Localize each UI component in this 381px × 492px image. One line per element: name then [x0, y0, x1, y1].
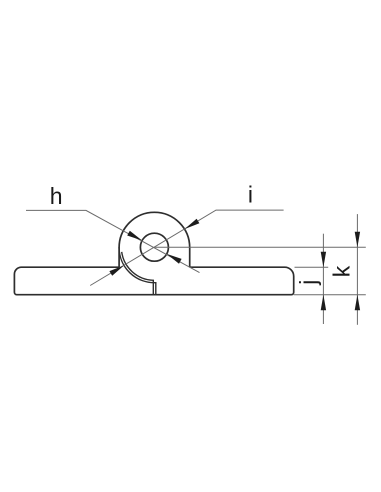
plate top extension line: [295, 266, 329, 268]
knuckle left vertical: [118, 247, 120, 267]
dimension line j: [322, 234, 324, 324]
leader h: horizontal + diagonal through hole: [26, 210, 200, 272]
leader i: horizontal + diagonal through barrel: [90, 210, 283, 285]
arrow j bottom: [321, 295, 326, 311]
plate (leaf) outline: [14, 267, 293, 295]
curl outer arc and sheet end: [119, 248, 156, 295]
svg-text:i: i: [248, 181, 253, 207]
center extension line: [154, 246, 365, 248]
arrow k top: [355, 232, 360, 248]
svg-text:j: j: [295, 280, 321, 286]
arrow k bottom: [355, 295, 360, 311]
arrow h lower-right: [167, 254, 182, 264]
arrow i upper-right: [185, 219, 200, 229]
knuckle right vertical: [189, 247, 191, 267]
svg-text:h: h: [50, 183, 63, 209]
plate bottom extension line: [294, 294, 366, 296]
arrow h upper-left: [127, 231, 142, 241]
dimension line k: [356, 214, 358, 325]
svg-text:k: k: [329, 265, 355, 277]
arrow i lower-left: [109, 265, 124, 275]
arrow j top: [321, 252, 326, 268]
knuckle barrel: upper semicircle: [119, 212, 190, 247]
pin hole small circle: [140, 233, 168, 261]
curl inner arc and sheet end inner line: [122, 252, 154, 295]
